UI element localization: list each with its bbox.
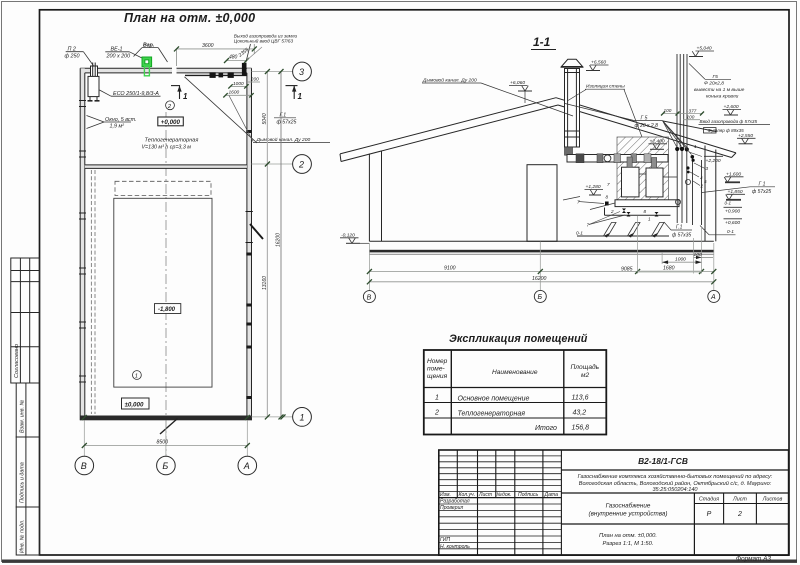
svg-text:Н. контроль: Н. контроль <box>440 544 470 550</box>
drain bottom line <box>577 235 669 237</box>
svg-text:7: 7 <box>577 200 580 205</box>
svg-text:±0,000: ±0,000 <box>125 401 144 408</box>
leader diagonal to chimney label <box>185 77 258 143</box>
svg-text:113,6: 113,6 <box>572 395 589 402</box>
0-1 labels <box>576 229 734 236</box>
svg-text:Дата: Дата <box>544 492 559 498</box>
svg-text:2: 2 <box>298 160 304 170</box>
svg-text:Разработал: Разработал <box>440 499 470 505</box>
svg-text:8500: 8500 <box>157 439 169 445</box>
dim 1000 <box>228 81 248 89</box>
svg-text:2: 2 <box>434 410 439 417</box>
boiler 2 (section) <box>646 168 663 197</box>
elevation -0,120 <box>340 232 369 243</box>
elevation +5,040 <box>689 46 714 57</box>
title block left grid verticals <box>457 450 561 555</box>
partition (axis Б) <box>527 165 557 242</box>
svg-text:1600: 1600 <box>229 90 240 96</box>
svg-text:ЕСО 250/1-9,8/3-А: ЕСО 250/1-9,8/3-А <box>113 91 159 97</box>
boiler leader and label <box>100 90 112 96</box>
svg-text:1000: 1000 <box>675 257 686 263</box>
gas downpipes <box>677 151 701 225</box>
boiler ECO <box>88 76 100 100</box>
svg-text:3: 3 <box>706 166 709 171</box>
drain chutes <box>604 223 665 237</box>
schedule table grid <box>424 350 607 435</box>
svg-text:Листов: Листов <box>762 497 783 503</box>
svg-text:Экспликация помещений: Экспликация помещений <box>449 333 588 345</box>
svg-text:2: 2 <box>737 511 742 518</box>
gas inlet pipe sloping to wall <box>663 121 716 132</box>
svg-text:1: 1 <box>135 374 138 380</box>
svg-text:Ф 20х2,8: Ф 20х2,8 <box>704 81 724 87</box>
elevation +6,060 <box>509 80 532 91</box>
window tick marks on left wall <box>79 101 86 383</box>
svg-text:Основное помещение: Основное помещение <box>458 396 530 403</box>
pipe connecting boilers to risers <box>663 176 677 178</box>
Г5 riser pipes <box>677 54 687 149</box>
svg-text:35:25:050204:140: 35:25:050204:140 <box>652 487 698 493</box>
dim 480 <box>224 54 249 63</box>
level mark +0,000 (boiler room) <box>158 117 184 126</box>
svg-text:-1,800: -1,800 <box>158 307 176 313</box>
svg-text:0-1: 0-1 <box>727 229 734 235</box>
svg-text:+0,600: +0,600 <box>725 220 740 226</box>
svg-text:Разрез 1:1, М 1:50.: Разрез 1:1, М 1:50. <box>603 541 654 547</box>
svg-text:16200: 16200 <box>532 276 547 282</box>
wall left (axis B) <box>80 68 85 420</box>
svg-text:7: 7 <box>587 223 590 228</box>
level mark ±0,000 (lower room) <box>122 398 150 409</box>
wall right (axis A) <box>247 68 252 420</box>
elevation +1,600 <box>724 171 743 182</box>
svg-text:№док.: №док. <box>497 492 512 498</box>
grid circle А <box>238 456 257 475</box>
svg-text:конька кровли: конька кровли <box>706 95 739 100</box>
label Г.5 ф20х2,8 with fan leaders <box>635 115 659 129</box>
svg-text:Лист: Лист <box>732 497 747 503</box>
dashed canopy rectangle <box>115 181 211 195</box>
title block left grid horizontals <box>439 456 562 549</box>
label Г.1 ф57х35 (bottom) <box>672 225 691 239</box>
svg-text:ГИП: ГИП <box>440 537 450 543</box>
svg-text:Футляр ф 89х35: Футляр ф 89х35 <box>708 128 745 133</box>
right wall <box>704 146 706 242</box>
svg-text:9085: 9085 <box>621 266 633 272</box>
svg-text:0-1: 0-1 <box>576 230 583 236</box>
svg-text:Ввод газопровода ф 57х35: Ввод газопровода ф 57х35 <box>700 119 758 124</box>
label Г1 ф 57х25 (right) <box>752 181 771 195</box>
svg-text:Изоляция стены: Изоляция стены <box>586 84 625 90</box>
svg-text:м2: м2 <box>581 372 590 379</box>
room number 1 <box>133 371 142 380</box>
svg-text:Подпись: Подпись <box>518 492 539 498</box>
bottom grid extensions <box>84 420 247 456</box>
svg-text:2: 2 <box>700 184 704 189</box>
stamp cell Подпись и дата <box>16 437 39 507</box>
label gas entry <box>234 33 298 43</box>
fastener ticks on right wall <box>246 212 253 243</box>
elevation +1,850 <box>726 189 745 200</box>
svg-text:План на отм. ±0,000.: План на отм. ±0,000. <box>599 533 657 539</box>
black drain valves <box>605 202 659 217</box>
svg-text:1,9 м²: 1,9 м² <box>110 124 125 130</box>
svg-text:Лист: Лист <box>478 492 492 498</box>
title block outer <box>439 450 789 555</box>
elevation +2,400 <box>649 138 668 149</box>
svg-text:+0,900: +0,900 <box>725 209 740 215</box>
label Г.1 ф 57x25 (plan right) <box>277 113 297 126</box>
roof right slope <box>556 98 736 153</box>
svg-text:Инв. № подл.: Инв. № подл. <box>19 520 25 553</box>
svg-text:Теплогенераторная: Теплогенераторная <box>145 138 199 144</box>
svg-text:3: 3 <box>299 67 304 77</box>
svg-text:Итого: Итого <box>535 425 557 432</box>
title block right part lines <box>561 470 788 555</box>
level mark -1,800 <box>155 304 181 314</box>
svg-text:0-1: 0-1 <box>725 201 732 206</box>
label Г5 right top <box>694 74 745 100</box>
leader 7 to valves <box>589 212 620 225</box>
svg-text:8: 8 <box>644 209 647 214</box>
svg-text:480: 480 <box>229 54 238 60</box>
svg-text:Кол.уч.: Кол.уч. <box>459 492 476 498</box>
svg-text:9100: 9100 <box>444 266 456 272</box>
extension lines <box>369 216 713 291</box>
svg-text:1: 1 <box>648 217 651 222</box>
svg-text:1-1: 1-1 <box>533 35 551 49</box>
dim 1600 <box>223 90 253 98</box>
vertical dim line 16200 <box>275 69 283 419</box>
vent shaft П2 <box>91 63 98 77</box>
grid circle 1 <box>252 416 293 418</box>
svg-text:Г.1: Г.1 <box>676 225 683 231</box>
drawing title <box>599 533 657 547</box>
title block header row labels <box>440 492 558 550</box>
valves cluster <box>675 147 695 174</box>
svg-text:поме-: поме- <box>427 366 445 373</box>
left wall <box>368 154 370 242</box>
svg-text:16200: 16200 <box>275 233 281 247</box>
sheet name <box>589 502 668 518</box>
vertical dim line 5040/13160 <box>262 69 270 419</box>
svg-text:+0,000: +0,000 <box>161 119 181 126</box>
svg-text:Проверил: Проверил <box>440 505 463 511</box>
svg-text:4: 4 <box>700 176 703 181</box>
svg-text:ф 57х25: ф 57х25 <box>752 189 771 195</box>
section mark 1 (upper) <box>171 86 188 101</box>
top small dims 100 377 <box>661 108 704 120</box>
storage pit outline <box>114 198 212 387</box>
svg-text:2: 2 <box>167 104 172 110</box>
floor lines <box>369 240 713 242</box>
svg-text:Взам. инв. №: Взам. инв. № <box>19 399 25 433</box>
svg-text:В: В <box>81 461 87 471</box>
svg-text:Б: Б <box>162 461 168 471</box>
svg-text:13160: 13160 <box>262 276 268 290</box>
gas entry leader <box>246 44 251 63</box>
stamp cell Инв. № подл. <box>16 507 39 555</box>
svg-text:А: А <box>710 294 716 301</box>
dim row 9100 / 9085 / 1680 <box>367 266 716 274</box>
futliar sleeve at wall <box>704 128 717 133</box>
dim 16200 <box>367 276 716 284</box>
svg-text:Газоснабжение: Газоснабжение <box>606 502 651 510</box>
dim 8500 <box>82 439 250 448</box>
leader lines right cluster <box>563 152 705 210</box>
svg-text:(внутренние устройства): (внутренние устройства) <box>589 510 668 518</box>
svg-text:Площадь: Площадь <box>571 363 600 371</box>
svg-text:Теплогенераторная: Теплогенераторная <box>458 411 526 418</box>
corner ticks <box>82 415 87 420</box>
schedule header texts <box>427 358 600 380</box>
section mark 1 (right) <box>286 86 303 101</box>
svg-text:ф 57х25: ф 57х25 <box>277 120 297 126</box>
flue duct horizontal <box>567 154 668 163</box>
svg-text:1: 1 <box>435 395 439 402</box>
svg-text:Стадия: Стадия <box>699 497 719 503</box>
room number 2 <box>166 101 175 110</box>
green gas appliance symbol <box>142 57 152 76</box>
elevation +2,550 <box>737 133 756 144</box>
approval stamp table (Согласовано) <box>11 258 40 383</box>
elevation +6,060 leader arrow line <box>524 91 526 103</box>
svg-text:1000: 1000 <box>233 81 244 87</box>
pipe fittings <box>210 63 247 78</box>
elevation +2,600 <box>723 104 742 115</box>
svg-text:2: 2 <box>610 209 614 214</box>
svg-text:7: 7 <box>607 182 610 187</box>
svg-text:Наименование: Наименование <box>492 369 538 376</box>
wall top (axis 3) <box>80 68 251 73</box>
elevation +6,560 <box>586 60 609 71</box>
svg-text:100: 100 <box>664 108 672 113</box>
stamp cell Взам. инв. № <box>16 383 39 437</box>
stage / sheet labels <box>699 497 783 503</box>
svg-text:1: 1 <box>300 412 305 422</box>
boiler flue stubs <box>627 157 657 168</box>
svg-text:100: 100 <box>687 114 695 119</box>
label П2 ф250 <box>65 47 80 60</box>
window label <box>105 117 137 130</box>
insulation dashed lines inside lower room <box>91 170 95 414</box>
svg-text:План на отм. ±0,000: План на отм. ±0,000 <box>124 11 255 25</box>
grid circle В <box>75 456 94 475</box>
svg-text:Номер: Номер <box>427 358 448 365</box>
section grid circle А <box>708 290 720 302</box>
svg-text:Г 1: Г 1 <box>759 181 766 187</box>
svg-text:вывести на 1 м выше: вывести на 1 м выше <box>694 87 745 93</box>
svg-text:8: 8 <box>606 195 609 200</box>
svg-text:Газоснабжение комплекса хозяйс: Газоснабжение комплекса хозяйственно-быт… <box>578 473 773 480</box>
svg-text:Б: Б <box>538 294 543 301</box>
project description <box>578 473 773 493</box>
svg-text:5: 5 <box>704 179 707 184</box>
svg-text:Дымовой канал. Ду 200: Дымовой канал. Ду 200 <box>256 136 311 143</box>
elevation +0,600 <box>724 219 743 226</box>
svg-text:щения: щения <box>427 373 448 380</box>
drain shelf under plinth <box>605 214 671 216</box>
svg-text:Согласовано: Согласовано <box>14 344 20 378</box>
svg-text:1: 1 <box>298 92 303 101</box>
elevation +2,200 <box>704 156 723 164</box>
label ВЕ-1 200x200 <box>106 46 131 59</box>
svg-text:+2,200: +2,200 <box>706 158 721 164</box>
svg-text:1680: 1680 <box>663 266 675 272</box>
svg-text:100: 100 <box>694 252 702 258</box>
grid circle Б <box>157 456 176 475</box>
wall bottom (axis 1) <box>80 416 251 421</box>
elevation +0,900 <box>724 207 743 214</box>
svg-text:156,8: 156,8 <box>572 425 590 432</box>
svg-text:200 х 200: 200 х 200 <box>106 54 131 60</box>
svg-text:43,2: 43,2 <box>573 410 587 417</box>
svg-text:1: 1 <box>183 92 188 101</box>
chimney body <box>565 69 580 148</box>
svg-text:V=130 м³ h ср=3,3 м: V=130 м³ h ср=3,3 м <box>142 145 192 151</box>
small pipe position digits <box>577 144 709 228</box>
grid circle 2 <box>252 163 293 165</box>
gas pipe along top wall <box>185 74 247 76</box>
svg-text:Подпись и дата: Подпись и дата <box>19 462 25 503</box>
section grid circle В <box>363 291 375 303</box>
svg-text:Изм.: Изм. <box>440 492 451 498</box>
plinth under boilers <box>615 200 679 207</box>
boiler 1 (section) <box>622 167 640 197</box>
svg-text:Вологодская область, Вологодск: Вологодская область, Вологодский район, … <box>579 480 772 487</box>
svg-text:ф 250: ф 250 <box>65 54 80 60</box>
svg-text:377: 377 <box>689 108 697 113</box>
partition wall (axis 2) <box>85 165 247 169</box>
svg-text:5040: 5040 <box>262 113 268 124</box>
svg-text:А: А <box>243 461 250 471</box>
axis line Б (vertical dash-dot) <box>165 112 167 456</box>
dim 1000/100 (upper small) <box>662 252 713 264</box>
section cut diagonal at bottom wall <box>160 419 178 435</box>
hatched wall block above boilers <box>617 137 669 200</box>
elevation +1,280 <box>585 184 604 195</box>
schedule rows <box>434 395 589 433</box>
svg-text:3600: 3600 <box>202 43 214 49</box>
svg-text:Дымовой канал. Ду 200: Дымовой канал. Ду 200 <box>422 77 477 84</box>
roof left slope <box>340 98 556 154</box>
svg-text:Р: Р <box>707 511 712 518</box>
svg-text:Цокольный ввод ЦВГ 57/63: Цокольный ввод ЦВГ 57/63 <box>234 37 294 43</box>
dim 3600 <box>174 43 257 66</box>
svg-text:В: В <box>367 294 372 301</box>
section grid circle Б <box>534 290 546 302</box>
chimney base cone <box>565 147 573 155</box>
svg-text:1: 1 <box>694 144 697 149</box>
svg-text:ф 57х35: ф 57х35 <box>672 233 691 239</box>
svg-text:В2-18/1-ГСВ: В2-18/1-ГСВ <box>638 456 688 466</box>
chimney cap <box>562 59 583 66</box>
svg-text:Формат А3: Формат А3 <box>736 556 771 563</box>
grid circle 3 <box>252 71 293 73</box>
